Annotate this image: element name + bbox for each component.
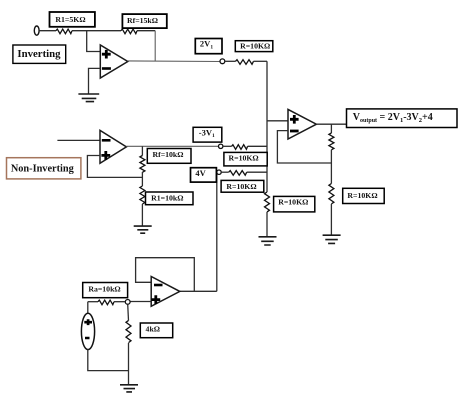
wire xyxy=(114,301,125,303)
resistor R=10K (to ground, right) zigzag xyxy=(329,184,334,204)
op-amp U4 minus symbol xyxy=(154,284,163,287)
label box Inverting xyxy=(13,45,66,63)
wire U2 plus input feedback tap xyxy=(87,156,142,178)
wire xyxy=(266,212,268,237)
ground G2 xyxy=(259,237,277,245)
resistor R=10K (4V branch) zigzag xyxy=(229,171,247,176)
wire xyxy=(221,171,229,173)
op-amp U2 plus symbol xyxy=(101,151,110,160)
wire source top xyxy=(87,302,89,313)
label box R1=10kOhm xyxy=(146,192,194,205)
source minus symbol xyxy=(85,337,90,340)
op-amp U3 plus symbol xyxy=(290,115,299,124)
svg-text:Non-Inverting: Non-Inverting xyxy=(11,163,75,174)
svg-text:Ra=10kΩ: Ra=10kΩ xyxy=(88,284,120,293)
op-amp U4 triangle xyxy=(151,277,180,307)
resistor Rf=10k (divider top) zigzag xyxy=(140,156,145,173)
op-amp U3 triangle xyxy=(288,109,316,139)
resistor Ra=10k zigzag xyxy=(98,300,114,305)
terminal node (Ra junction) xyxy=(125,300,130,305)
wire non-inverting input xyxy=(57,139,100,141)
resistor R1=10k (divider bottom) zigzag xyxy=(140,186,145,204)
wire xyxy=(72,30,121,32)
wire to ground xyxy=(141,204,143,226)
wire xyxy=(225,60,236,62)
label box Non-Inverting xyxy=(7,158,81,179)
wire xyxy=(330,150,332,184)
op-amp U2 minus symbol xyxy=(102,139,111,142)
wire xyxy=(39,30,56,32)
label box Voutput formula xyxy=(347,109,458,128)
wire 4k bottom to ground xyxy=(128,343,130,385)
wire xyxy=(137,30,155,32)
source plus symbol xyxy=(84,319,92,325)
svg-text:Inverting: Inverting xyxy=(17,48,61,60)
svg-text:4V: 4V xyxy=(195,168,206,178)
label box 4V xyxy=(191,168,217,182)
resistor R1=5K zigzag xyxy=(56,29,72,34)
wire U4 feedback loop xyxy=(136,258,195,292)
label box R=10KOhm (4V) xyxy=(221,180,264,192)
wire junction drop to op-amp U1 + input xyxy=(87,31,101,52)
node A vertical wire xyxy=(266,61,268,192)
svg-text:R1=10kΩ: R1=10kΩ xyxy=(151,193,183,202)
svg-text:R=10KΩ: R=10KΩ xyxy=(240,42,270,51)
wire 4V node down to U4 output xyxy=(216,174,218,291)
wire U3 output xyxy=(316,123,346,125)
wire divider tap xyxy=(141,172,143,186)
wire xyxy=(88,301,98,303)
label box R=10KOhm (-3V1) xyxy=(224,152,267,166)
ground G1 xyxy=(78,94,99,102)
svg-text:R=10KΩ: R=10KΩ xyxy=(278,198,308,207)
label box 2V1 xyxy=(195,39,222,54)
wire U1 output xyxy=(128,60,220,63)
svg-text:R1=5KΩ: R1=5KΩ xyxy=(55,15,85,24)
resistor R=10K (2V1 branch) zigzag xyxy=(236,60,254,65)
svg-text:R=10KΩ: R=10KΩ xyxy=(229,154,259,163)
label box Ra=10kOhm xyxy=(83,283,128,298)
label box R=10KOhm (2V1) xyxy=(235,41,272,52)
op-amp U2 triangle xyxy=(100,130,126,163)
op-amp U3 minus symbol xyxy=(290,130,299,133)
resistor Rf=15k zigzag xyxy=(121,29,137,34)
wire U2 output to divider xyxy=(141,146,143,155)
wire to node A xyxy=(254,60,268,62)
wire to node A xyxy=(248,145,267,147)
svg-text:Rf=15kΩ: Rf=15kΩ xyxy=(127,16,158,25)
label box -3V1 xyxy=(193,127,222,142)
wire Rf to output node xyxy=(154,31,156,62)
resistor 4k zigzag xyxy=(126,321,131,343)
wire U3 minus to feedback node xyxy=(277,131,331,163)
terminal node 4V xyxy=(217,170,221,174)
wire U2 output xyxy=(126,145,218,147)
wire xyxy=(223,145,232,147)
op-amp U1 plus symbol xyxy=(102,50,111,59)
input terminal V1 (inverting input) xyxy=(34,26,39,35)
wire output to feedback resistor xyxy=(330,124,332,133)
label box R=10KOhm (right) xyxy=(343,188,385,203)
voltage source VS ellipse xyxy=(81,313,94,349)
label box R1=5KOhm xyxy=(50,12,95,27)
label box R=10KOhm (node A) xyxy=(274,196,315,212)
op-amp U1 triangle xyxy=(100,45,128,78)
svg-text:R=10KΩ: R=10KΩ xyxy=(347,191,377,200)
ground G3 xyxy=(134,226,152,233)
svg-text:R=10KΩ: R=10KΩ xyxy=(226,182,256,191)
wire U4 plus input xyxy=(130,301,151,303)
op-amp U1 minus symbol xyxy=(102,67,111,70)
ground G5 xyxy=(323,235,341,243)
wire source bottom to ground rail xyxy=(88,350,129,371)
wire U1 minus input to ground xyxy=(89,68,101,93)
resistor Rfb (U3 feedback) zigzag xyxy=(329,133,334,150)
label box Rf=10kOhm xyxy=(147,149,191,164)
terminal node -3V1 xyxy=(219,144,223,148)
resistor R=10K (node A to ground) zigzag xyxy=(265,192,270,212)
wire xyxy=(330,204,332,235)
wire U4 output xyxy=(180,290,217,292)
ground G4 xyxy=(120,385,138,392)
label box Rf=15kOhm xyxy=(122,14,166,28)
wire 4k resistor top xyxy=(127,304,130,320)
svg-text:4kΩ: 4kΩ xyxy=(146,324,160,333)
label box 4kOhm xyxy=(140,323,172,338)
terminal node 2V1 xyxy=(220,59,225,64)
wire node A to U3 + input xyxy=(267,120,288,122)
wire to node A xyxy=(247,171,267,173)
op-amp U4 plus symbol xyxy=(151,295,160,304)
svg-text:Rf=10kΩ: Rf=10kΩ xyxy=(152,150,183,159)
resistor R=10K (-3V1 branch) zigzag xyxy=(232,145,248,150)
